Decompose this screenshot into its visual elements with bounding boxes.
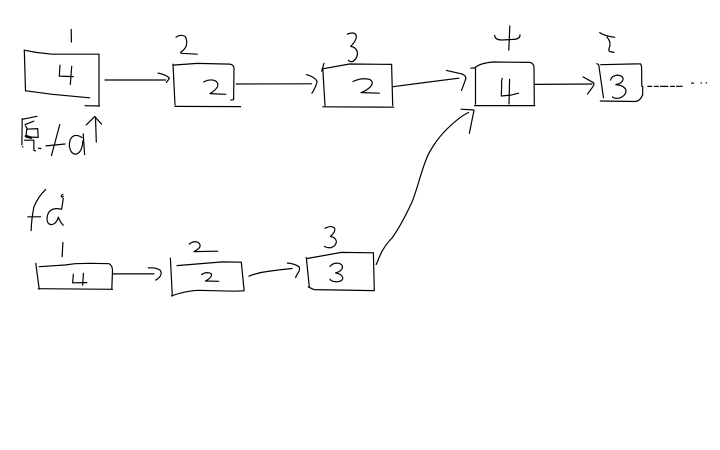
label 3 above top node 3 [347,33,357,62]
box top node 3 [322,63,394,107]
annotation fa label for bottom list [28,189,64,230]
box bottom node 2 [170,258,244,296]
wire arrow top 4 to 5 [535,77,594,94]
box bottom node 3 [306,252,374,290]
annotation letter a [69,134,84,155]
box top node 4 [471,62,535,106]
annotation character under top node 1 [22,116,41,151]
value 4 in top node 4 [501,78,518,104]
value 2 in bottom node 2 [202,273,219,282]
annotation up arrow [86,117,101,142]
label 5 above top node 5 [600,33,615,53]
wire arrow top 3 to 4 [393,70,466,90]
value 2 in top node 3 [353,79,379,93]
value 2 in top node 2 [204,80,226,94]
value 4 in bottom node 1 [73,273,87,285]
box bottom node 1 [36,263,113,289]
dashed continuation after node 5 [648,83,707,87]
wire arrow top 1 to 2 [105,73,169,82]
box top node 1 [24,50,99,106]
value 3 in top node 5 [611,75,627,98]
value 3 in bottom node 3 [330,263,343,282]
label 3 above bottom node 3 [324,227,336,248]
value 4 in top node 1 [59,65,73,84]
wire arrow bottom 2 to 3 [249,263,300,278]
box top node 5 [597,64,643,102]
annotation plus sign [46,125,65,156]
box top node 2 [173,63,241,106]
wire arrow top 2 to 3 [236,75,317,94]
wire long curved arrow bottom 3 to top 4 [376,109,474,264]
label 2 above top node 2 [176,35,197,54]
label above top node 4 [495,26,520,50]
label 2 above bottom node 2 [189,242,217,252]
wire arrow bottom 1 to 2 [113,268,161,280]
label 1 above top node 1 [70,30,72,43]
label 1 above bottom node 1 [61,243,64,257]
